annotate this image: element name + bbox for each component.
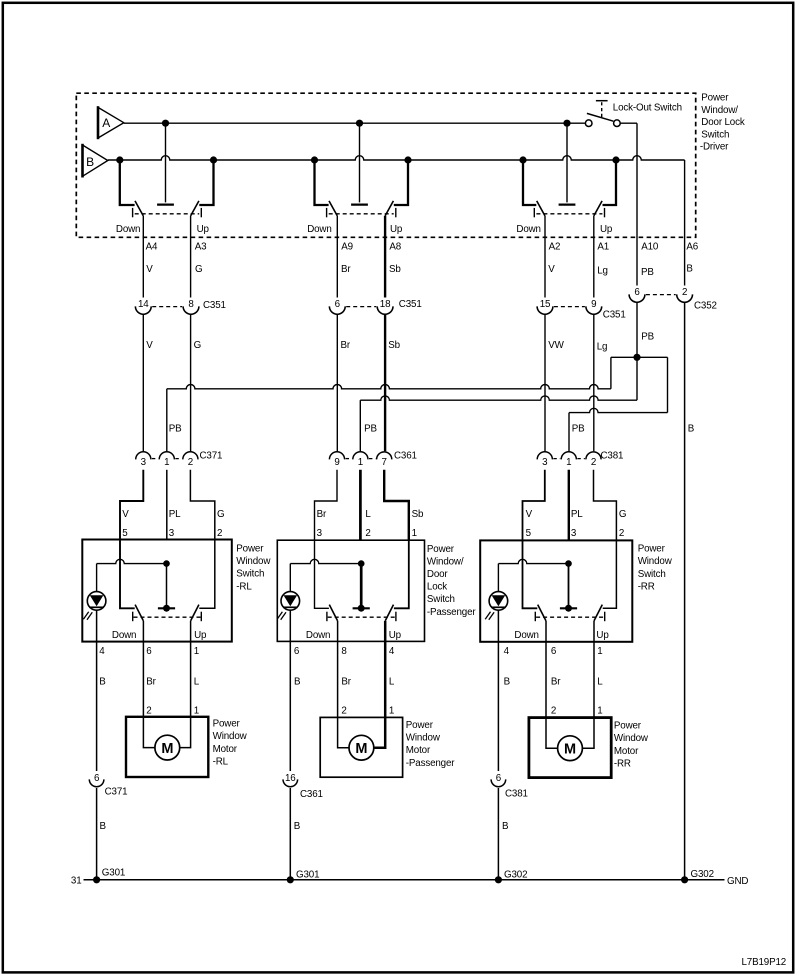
wire: RR Down pivot to box bottom	[545, 621, 547, 642]
lock-out switch	[585, 101, 637, 127]
svg-text:Power: Power	[638, 544, 666, 555]
pin labels below RL switch box	[99, 646, 199, 657]
mechanical linkage: passenger window rocker	[329, 213, 394, 215]
connector C351 pin 9	[586, 299, 602, 315]
wire: passenger switch illumination feed (hops over pin 5 wire)	[290, 559, 361, 591]
wire: passenger Down pivot to box bottom	[337, 621, 339, 642]
svg-text:PB: PB	[364, 424, 377, 435]
label: Power Window Switch -RL	[236, 543, 271, 592]
svg-text:C351: C351	[603, 310, 626, 321]
wire: RL pin 5 feed to Down contact	[120, 540, 135, 608]
switch blade: RL window Down contact	[133, 201, 144, 217]
svg-text:Down: Down	[516, 224, 540, 235]
wire colour labels below C351	[146, 340, 607, 353]
svg-text:1: 1	[358, 457, 363, 468]
switch blade: RL Up contact	[191, 605, 202, 622]
svg-text:Power: Power	[701, 93, 729, 104]
svg-text:A6: A6	[686, 242, 698, 253]
svg-text:2: 2	[188, 457, 193, 468]
svg-text:15: 15	[540, 299, 551, 310]
mechanical linkage: RL rocker	[134, 616, 201, 618]
svg-text:2: 2	[217, 528, 222, 539]
svg-text:B: B	[86, 155, 94, 169]
switch box top pin labels (colour + pin number)	[122, 509, 626, 539]
svg-text:Br: Br	[317, 509, 327, 520]
svg-text:8: 8	[188, 299, 194, 310]
label: Power Window Motor -RR	[614, 721, 649, 770]
junction: RR contact bar	[565, 605, 572, 612]
connector C361 pin 7	[377, 452, 392, 468]
svg-text:Switch: Switch	[638, 569, 666, 580]
svg-text:Lock-Out Switch: Lock-Out Switch	[613, 102, 682, 113]
svg-text:Window/: Window/	[701, 105, 738, 116]
wire: passenger pin 5 feed to Down contact	[315, 540, 329, 608]
svg-text:6: 6	[294, 646, 300, 657]
label: RR Down/Up	[514, 630, 609, 641]
motor pin labels	[146, 706, 602, 717]
node A (power feed A) triangle	[98, 106, 124, 139]
svg-text:6: 6	[496, 773, 502, 784]
svg-text:Power: Power	[427, 544, 455, 555]
svg-text:Lock: Lock	[427, 582, 447, 593]
wire: lock-out switch output to pin A10 (PB)	[636, 123, 638, 285]
connector C352 pin 6	[629, 287, 645, 303]
connector C361 links and designator	[346, 451, 417, 462]
svg-text:A8: A8	[389, 242, 401, 253]
wire: RR pin 3 centre to contact bar	[560, 564, 577, 609]
wire: passenger window down output pin A9	[336, 216, 338, 298]
label: Power Window Switch -RR	[638, 544, 673, 593]
svg-text:B: B	[294, 677, 301, 688]
wire: PB branch to C371 pin 1 (bus 1)	[167, 357, 637, 451]
wire: VW from C351 down	[544, 315, 546, 451]
switch assembly dashed outline: Power Window/Door Lock Switch -Driver	[76, 93, 695, 237]
svg-text:Down: Down	[306, 630, 330, 641]
svg-text:GND: GND	[727, 876, 748, 887]
svg-text:VW: VW	[548, 340, 564, 351]
svg-text:-Passenger: -Passenger	[427, 607, 476, 618]
svg-text:2: 2	[551, 706, 556, 717]
label: Power Window Motor -passenger	[406, 720, 455, 769]
junction line B / passenger up feed	[404, 156, 411, 163]
wire: Lg from C351 down	[593, 315, 595, 451]
wire: V to RR switch pin 5	[523, 470, 545, 540]
svg-text:6: 6	[94, 773, 100, 784]
svg-text:Down: Down	[116, 224, 140, 235]
wire: RR motor pin 1 lead	[582, 642, 594, 748]
junction line B / RR up feed	[612, 156, 619, 163]
switch blade: passenger Up contact	[385, 605, 396, 622]
wire: passenger pin 2 feed to Up contact	[394, 540, 409, 608]
svg-text:1: 1	[566, 457, 571, 468]
mechanical linkage: RR window rocker	[536, 213, 602, 215]
label: RL window Down/Up	[116, 224, 210, 235]
wire: PL to RR switch pin 3	[568, 470, 570, 540]
wire: bus line B (turns down at right to pin A6)	[108, 156, 685, 160]
svg-text:2: 2	[682, 287, 687, 298]
connector C381 pin 6	[491, 773, 528, 800]
svg-text:Up: Up	[596, 630, 609, 641]
svg-text:Br: Br	[341, 677, 351, 688]
svg-text:8: 8	[341, 646, 347, 657]
svg-text:Up: Up	[194, 630, 207, 641]
svg-text:B: B	[99, 677, 106, 688]
connector C361 pin 9	[329, 452, 344, 468]
svg-text:1: 1	[194, 706, 199, 717]
component box: Power Window Switch -RR	[480, 540, 632, 641]
junction line A / RL common	[162, 120, 169, 127]
mechanical linkage: RL window rocker	[135, 213, 200, 215]
svg-text:6: 6	[634, 287, 640, 298]
svg-text:C351: C351	[399, 299, 422, 310]
svg-text:Window: Window	[638, 556, 673, 567]
wire: RR pin 2 feed to Up contact	[603, 540, 617, 608]
wire: RR switch illumination feed (hops over pin 5 wire)	[498, 559, 568, 591]
svg-text:6: 6	[146, 646, 152, 657]
switch blade: passenger window Down contact	[327, 201, 338, 217]
wire: B from C352 pin 2 down to ground bus	[685, 303, 695, 880]
wire: passenger window common from line A	[351, 123, 368, 204]
wire: passenger LED cathode to pin 4	[289, 610, 291, 641]
svg-text:M: M	[161, 741, 173, 757]
wire: RL switch ground lead to C371	[96, 642, 98, 771]
svg-text:Sb: Sb	[412, 509, 424, 520]
svg-text:Switch: Switch	[701, 129, 729, 140]
svg-text:16: 16	[285, 773, 296, 784]
svg-text:PL: PL	[169, 509, 181, 520]
label: passenger window Down/Up	[307, 224, 403, 235]
svg-text:PB: PB	[169, 424, 182, 435]
svg-text:G: G	[217, 509, 224, 520]
wire: RR window up output pin A1	[593, 216, 595, 298]
svg-text:Br: Br	[551, 677, 561, 688]
wire: RR window down output pin A2	[544, 216, 546, 298]
switch blade: RL window Up contact	[191, 201, 202, 217]
svg-text:G: G	[619, 509, 626, 520]
label: Power Window Switch -passenger	[427, 544, 476, 618]
svg-text:L7B19P12: L7B19P12	[742, 957, 787, 968]
mechanical linkage: RR rocker	[536, 616, 604, 618]
connector C352 pin 2	[677, 287, 693, 303]
svg-text:Sb: Sb	[389, 264, 401, 275]
svg-text:C351: C351	[203, 300, 226, 311]
svg-text:18: 18	[380, 299, 391, 310]
wire: RL motor pin 2 lead	[143, 642, 155, 748]
wire: PB branch to C361 pin 1 (bus 2)	[360, 357, 637, 451]
svg-text:Down: Down	[112, 630, 136, 641]
wire: passenger window up output pin A8	[384, 216, 386, 298]
connector C381 pin 2	[586, 452, 601, 468]
wire: B ground lead to G302	[498, 788, 509, 880]
junction: passenger contact bar	[358, 605, 365, 612]
component box: Power Window Motor -passenger	[320, 717, 402, 777]
junction line B / RL up feed	[210, 156, 217, 163]
svg-text:G301: G301	[102, 868, 125, 879]
svg-text:5: 5	[526, 528, 532, 539]
connector C381 links and designator	[553, 451, 623, 462]
wire: passenger switch ground lead to C361	[289, 641, 291, 771]
label: RR window Down/Up	[516, 224, 613, 235]
svg-text:C381: C381	[505, 789, 528, 800]
wire: ground bus 31	[84, 879, 685, 881]
pin labels A9/A8	[341, 242, 401, 253]
svg-text:-Passenger: -Passenger	[406, 758, 455, 769]
drawing number L7B19P12	[742, 957, 787, 968]
wire: passenger pin 3 centre to contact bar	[353, 564, 370, 609]
wire: RL motor pin 1 lead	[180, 642, 191, 748]
svg-text:3: 3	[571, 528, 577, 539]
wire: RL switch illumination feed (hops over pin 5 wire)	[97, 559, 167, 591]
junction line B / RR down feed	[519, 156, 526, 163]
svg-text:9: 9	[334, 457, 339, 468]
svg-text:PB: PB	[572, 424, 585, 435]
wire: bus line A	[124, 122, 586, 124]
label: RL Down/Up	[112, 630, 207, 641]
wire: Sb to passenger switch pin 1	[384, 470, 409, 540]
pin label A6	[686, 242, 698, 253]
switch blade: passenger Down contact	[327, 605, 338, 622]
connector C351 pin 6	[329, 299, 345, 315]
svg-text:7: 7	[382, 457, 387, 468]
component box: Power Window Motor -RR	[529, 718, 611, 778]
svg-text:1: 1	[389, 706, 394, 717]
svg-text:C371: C371	[200, 451, 223, 462]
pin labels below RR switch box	[504, 646, 603, 657]
LED: RL switch illumination	[83, 592, 105, 620]
svg-text:14: 14	[138, 299, 149, 310]
wire: PB branch to C381 pin 1 (bus 3)	[569, 357, 668, 451]
svg-text:Power: Power	[614, 721, 642, 732]
junction: RR pin 3 / LED feed	[565, 560, 572, 567]
component box: Power Window Switch -passenger	[277, 540, 424, 641]
svg-text:9: 9	[591, 299, 596, 310]
svg-text:3: 3	[317, 528, 323, 539]
svg-text:Sb: Sb	[388, 340, 400, 351]
svg-text:2: 2	[591, 457, 596, 468]
component box: Power Window Switch -RL	[82, 540, 232, 642]
svg-text:Br: Br	[146, 677, 156, 688]
svg-text:G301: G301	[296, 869, 319, 880]
svg-text:B: B	[100, 821, 107, 832]
wire: V from C351 down	[142, 315, 144, 451]
svg-text:A3: A3	[195, 242, 207, 253]
svg-text:Up: Up	[390, 224, 403, 235]
svg-text:-RR: -RR	[638, 582, 655, 593]
wire: Br to passenger switch pin 3	[315, 470, 338, 540]
junction line B / RL down feed	[116, 156, 123, 163]
connector C351 dashed pair links and designators	[152, 299, 625, 321]
svg-text:B: B	[686, 264, 693, 275]
junction line B / passenger down feed	[311, 156, 318, 163]
svg-text:1: 1	[412, 528, 417, 539]
svg-text:Window/: Window/	[427, 556, 464, 567]
junction: RL contact bar	[163, 605, 170, 612]
svg-text:C352: C352	[694, 301, 717, 312]
svg-text:Switch: Switch	[427, 594, 455, 605]
node B (power feed B) triangle	[83, 144, 108, 178]
svg-text:Power: Power	[236, 543, 264, 554]
svg-text:1: 1	[597, 646, 602, 657]
ground node G301	[93, 868, 125, 884]
wire colour labels below switch boxes	[99, 677, 603, 688]
svg-text:6: 6	[551, 646, 557, 657]
label: Power Window/Door Lock Switch -Driver	[700, 93, 745, 153]
svg-text:2: 2	[146, 706, 151, 717]
wire: G to RR switch pin 2	[594, 470, 617, 540]
svg-text:Up: Up	[389, 630, 402, 641]
label: Power Window Motor -RL	[213, 719, 248, 768]
svg-text:V: V	[548, 264, 555, 275]
wire: G from C351 down	[190, 315, 192, 451]
wire: Br from C351 down	[336, 315, 338, 451]
svg-text:C381: C381	[601, 451, 624, 462]
connector C371 pin 3	[136, 452, 151, 468]
svg-text:M: M	[564, 741, 576, 757]
wire: passenger window up-side feed from line B	[394, 160, 408, 205]
wire: RL Down pivot to box bottom	[142, 621, 144, 642]
svg-text:B: B	[294, 821, 301, 832]
wire: RL pin 3 centre to contact bar	[158, 564, 175, 609]
svg-text:PL: PL	[571, 509, 583, 520]
svg-text:-Driver: -Driver	[700, 142, 729, 153]
wire: PB from C352 pin 6 down to junction	[637, 303, 655, 358]
wire: RR window common from line A	[559, 123, 576, 204]
svg-text:C361: C361	[394, 451, 417, 462]
svg-text:3: 3	[542, 457, 548, 468]
pin label A10	[641, 242, 659, 253]
svg-text:L: L	[194, 677, 200, 688]
connector C371 pin 1	[159, 452, 174, 468]
svg-text:PB: PB	[641, 332, 654, 343]
svg-text:Down: Down	[514, 630, 538, 641]
switch blade: RR Down contact	[535, 605, 546, 622]
connector C381 pin 1	[561, 452, 576, 468]
wire: Sb from C351 down	[384, 315, 386, 451]
pin labels A4/A3	[146, 242, 208, 253]
wire: RR LED cathode to pin 4	[497, 610, 499, 642]
svg-text:Switch: Switch	[236, 569, 264, 580]
svg-text:2: 2	[619, 528, 624, 539]
svg-text:B: B	[502, 821, 509, 832]
svg-text:L: L	[365, 509, 371, 520]
wire: B ground lead to G301	[290, 788, 301, 880]
connector C371 links and designator	[152, 451, 222, 462]
connector C361 pin 1	[353, 452, 368, 468]
svg-text:B: B	[504, 677, 511, 688]
svg-text:Lg: Lg	[597, 266, 608, 277]
svg-text:1: 1	[164, 457, 169, 468]
svg-text:PB: PB	[641, 267, 654, 278]
switch blade: passenger window Up contact	[385, 201, 396, 217]
switch blade: RR Up contact	[594, 605, 605, 622]
svg-text:Door: Door	[427, 569, 449, 580]
svg-text:Br: Br	[341, 264, 351, 275]
svg-text:1: 1	[597, 706, 602, 717]
svg-text:1: 1	[194, 646, 199, 657]
wire: RL window down output pin A4	[142, 216, 144, 298]
svg-text:Up: Up	[600, 224, 613, 235]
wire: G to RL switch pin 2	[190, 470, 214, 540]
motor M: RR window motor	[558, 736, 583, 761]
switch blade: RL Down contact	[133, 605, 144, 622]
junction: PB splice	[633, 354, 640, 361]
wire: passenger motor pin 1 lead	[374, 641, 385, 747]
component box: Power Window Motor -RL	[126, 717, 208, 777]
svg-text:V: V	[146, 340, 153, 351]
wire: RR Up pivot to box bottom	[593, 621, 595, 642]
connector C371 pin 2	[183, 452, 198, 468]
wire: RL window common from line A	[157, 123, 174, 204]
svg-text:Power: Power	[406, 720, 434, 731]
motor M: passenger window motor	[349, 735, 374, 760]
svg-text:G: G	[195, 264, 202, 275]
svg-text:Window: Window	[406, 733, 441, 744]
connector C352 dashed link and designator	[646, 295, 717, 312]
wire: passenger Up pivot to box bottom	[384, 621, 387, 642]
svg-text:Motor: Motor	[614, 746, 639, 757]
wire colour labels above C351/C352	[146, 264, 693, 279]
svg-text:C371: C371	[105, 787, 128, 798]
connector C361 pin 16	[283, 773, 323, 800]
svg-text:3: 3	[141, 457, 147, 468]
svg-text:Up: Up	[197, 224, 210, 235]
wire: V to RL switch pin 5	[120, 470, 143, 540]
svg-text:L: L	[597, 677, 603, 688]
wire: line B to pin A6 (B)	[684, 160, 686, 286]
ground node G302 (right, to GND)	[681, 869, 748, 887]
label: passenger Down/Up	[306, 630, 402, 641]
svg-text:5: 5	[122, 528, 128, 539]
svg-text:V: V	[146, 264, 153, 275]
svg-text:Window: Window	[213, 731, 248, 742]
wire: RR pin 5 feed to Down contact	[523, 540, 538, 608]
svg-text:A9: A9	[341, 242, 353, 253]
ground node G301	[287, 869, 320, 883]
svg-text:Window: Window	[614, 733, 649, 744]
svg-text:C361: C361	[300, 789, 323, 800]
svg-text:A4: A4	[146, 242, 158, 253]
svg-text:2: 2	[365, 528, 370, 539]
connector C351 pin 8	[183, 299, 199, 315]
mechanical linkage: passenger rocker	[328, 616, 395, 618]
svg-text:Motor: Motor	[406, 745, 431, 756]
LED: RR switch illumination	[485, 592, 508, 620]
switch blade: RR window Down contact	[534, 201, 545, 217]
wire: RL pin 2 feed to Up contact	[199, 540, 215, 608]
connector C371 pin 6	[89, 773, 127, 798]
svg-text:G: G	[194, 340, 201, 351]
svg-text:Lg: Lg	[597, 342, 608, 353]
svg-text:6: 6	[335, 299, 341, 310]
svg-text:Br: Br	[341, 340, 351, 351]
LED: passenger switch illumination	[277, 592, 300, 620]
pin labels below passenger switch box	[294, 646, 395, 657]
svg-text:G302: G302	[504, 869, 527, 880]
svg-text:3: 3	[169, 528, 175, 539]
switch blade: RR window Up contact	[594, 201, 605, 217]
wire: RL window up output pin A3	[190, 216, 192, 298]
wire: B ground lead to G301	[97, 788, 107, 880]
svg-text:Power: Power	[213, 719, 241, 730]
connector C351 pin 14	[135, 299, 151, 315]
svg-text:A2: A2	[549, 242, 561, 253]
junction: RL pin 3 / LED feed	[163, 560, 170, 567]
wire: RR motor pin 2 lead	[546, 642, 558, 748]
svg-text:Down: Down	[307, 224, 331, 235]
svg-text:2: 2	[341, 706, 346, 717]
motor M: RL window motor	[155, 735, 180, 760]
wire: RR window down-side feed from line B	[523, 160, 536, 205]
